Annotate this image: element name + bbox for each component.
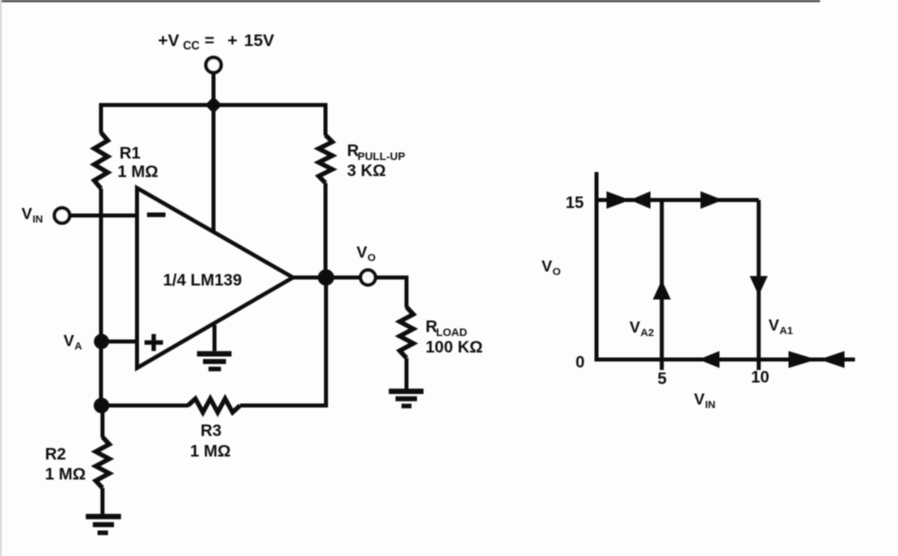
svg-text:O: O	[553, 266, 561, 278]
graph top level VO=15	[597, 198, 759, 202]
op-amp U1 1/4 LM139	[137, 188, 293, 368]
node +VCC terminal	[206, 57, 221, 72]
label RPULL-UP	[347, 142, 405, 163]
svg-text:10: 10	[751, 369, 769, 387]
ground R2	[86, 517, 121, 533]
svg-text:IN: IN	[33, 214, 44, 226]
wire left rail (VA net)	[99, 189, 103, 406]
graph Y axis	[595, 172, 599, 360]
wire VIN to inverting input	[70, 214, 138, 218]
wire feedback left segment	[102, 404, 189, 408]
svg-text:R1: R1	[120, 145, 141, 163]
svg-text:15V: 15V	[244, 31, 275, 50]
node VO terminal	[361, 270, 376, 285]
resistor RLOAD	[400, 307, 414, 358]
arrow down on VA1 line	[750, 276, 768, 296]
pin minus input symbol	[147, 213, 166, 218]
node VA junction	[94, 334, 109, 349]
wire VCC stem	[212, 73, 216, 105]
node feedback junction	[94, 398, 110, 414]
svg-text:A: A	[75, 341, 83, 353]
svg-text:V: V	[630, 320, 641, 337]
svg-text:5: 5	[658, 370, 667, 388]
label VO output	[357, 245, 376, 265]
svg-text:+V: +V	[158, 31, 180, 50]
svg-text:V: V	[694, 392, 705, 409]
svg-text:LOAD: LOAD	[436, 327, 467, 339]
svg-text:A1: A1	[780, 325, 794, 337]
svg-text:100 KΩ: 100 KΩ	[426, 339, 483, 357]
svg-text:O: O	[368, 252, 376, 264]
scan border left edge	[0, 0, 2, 556]
svg-text:3 KΩ: 3 KΩ	[347, 162, 386, 180]
ground op-amp V- pin	[197, 325, 232, 369]
svg-text:0: 0	[576, 354, 585, 372]
arrow right on top segment (middle)	[701, 191, 724, 208]
svg-text:IN: IN	[705, 399, 716, 411]
resistor R1	[94, 133, 108, 189]
resistor R2	[96, 437, 110, 488]
scan border top edge	[0, 0, 820, 2]
svg-text:=: =	[205, 31, 215, 50]
wire RLOAD to ground	[405, 358, 409, 389]
arrow right on top segment (left pair)	[607, 191, 631, 208]
ground RLOAD	[389, 391, 424, 406]
svg-text:A2: A2	[641, 327, 655, 339]
resistor R3	[188, 399, 240, 413]
graph X axis	[595, 358, 856, 362]
wire op-amp output	[293, 276, 361, 280]
label VA2	[630, 320, 655, 340]
label RLOAD	[426, 318, 468, 339]
resistor RPULL-UP	[319, 135, 333, 183]
svg-text:CC: CC	[183, 41, 200, 53]
svg-text:V: V	[769, 318, 780, 335]
wire right rail upper	[324, 103, 328, 136]
svg-text:R3: R3	[201, 422, 222, 440]
label VA1	[769, 318, 794, 338]
wire right rail to output	[324, 183, 328, 278]
label VIN	[22, 206, 44, 226]
node VIN terminal	[54, 208, 69, 223]
arrow left on X axis between 5 and 10	[699, 351, 720, 368]
arrow up on VA2 line	[653, 280, 671, 300]
label VA	[64, 333, 83, 353]
svg-text:+: +	[228, 31, 238, 50]
svg-text:15: 15	[566, 194, 584, 212]
graph VA2 vertical at VIN=5	[660, 200, 664, 370]
svg-text:1 MΩ: 1 MΩ	[45, 466, 86, 484]
wire V+ pin into top edge	[212, 105, 216, 231]
wire VO to load	[375, 278, 406, 308]
svg-text:V: V	[64, 333, 75, 350]
arrow left on top segment (left pair)	[630, 191, 651, 208]
arrow left on X axis right pair	[820, 351, 845, 368]
wire VA to non-inverting input	[102, 340, 139, 344]
label +VCC = +15V	[158, 31, 275, 53]
label VIN axis	[694, 392, 716, 412]
arrow right on X axis right pair	[789, 351, 817, 368]
svg-text:V: V	[357, 245, 368, 262]
wire left rail upper	[99, 103, 103, 133]
svg-text:1 MΩ: 1 MΩ	[118, 163, 159, 181]
wire feedback right segment	[240, 278, 326, 406]
pin plus input symbol	[145, 334, 164, 351]
svg-text:V: V	[542, 259, 553, 276]
svg-text:1 MΩ: 1 MΩ	[190, 443, 231, 461]
wire top supply rail	[101, 103, 326, 107]
node VCC junction	[205, 97, 222, 114]
svg-text:R2: R2	[45, 446, 66, 464]
wire R2 top lead	[101, 406, 105, 438]
svg-text:V: V	[22, 206, 33, 223]
svg-text:1/4 LM139: 1/4 LM139	[163, 272, 242, 290]
wire R2 to ground	[101, 488, 105, 514]
label VO axis	[542, 259, 561, 279]
node output junction	[318, 269, 334, 285]
graph VA1 vertical at VIN=10	[757, 200, 761, 370]
